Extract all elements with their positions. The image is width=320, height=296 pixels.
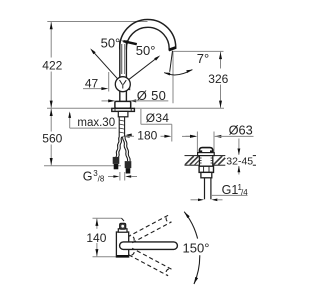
dimension 140 vertical line xyxy=(95,218,98,257)
svg-text:50°: 50° xyxy=(136,43,156,58)
extension line hose connection level xyxy=(44,165,121,167)
svg-text:422: 422 xyxy=(42,58,62,72)
lever ball joint xyxy=(115,77,130,92)
svg-text:560: 560 xyxy=(42,132,62,146)
dimension 180 xyxy=(123,135,172,138)
extension line top of body (plan) xyxy=(93,218,125,221)
swivel arrow left 50 deg xyxy=(121,40,137,44)
hose connector left xyxy=(113,157,120,169)
mounting washer below deck xyxy=(112,108,135,111)
dimension diameter 63 xyxy=(182,132,254,153)
spout plan view xyxy=(120,242,178,250)
dimension 422 vertical line xyxy=(50,22,53,109)
svg-text:Ø 50: Ø 50 xyxy=(137,88,166,103)
leader to waste centre xyxy=(186,135,198,138)
waste flange xyxy=(198,153,215,156)
base escutcheon xyxy=(115,101,131,108)
svg-text:50°: 50° xyxy=(101,36,121,51)
swivel arc 150 deg xyxy=(184,212,200,284)
svg-text:140: 140 xyxy=(86,231,106,245)
mounting nut xyxy=(118,111,128,116)
svg-text:/8: /8 xyxy=(98,175,105,184)
dimension 560 vertical line xyxy=(50,108,53,166)
extension line bottom of body (plan) xyxy=(93,256,126,258)
lever plan view xyxy=(118,229,127,232)
svg-text:max.30: max.30 xyxy=(77,117,115,129)
dimension 326 vertical line xyxy=(219,51,222,108)
waste body through counter xyxy=(199,156,212,166)
svg-text:32-45: 32-45 xyxy=(226,155,253,167)
angle arc 7 deg with arrows xyxy=(164,70,192,76)
stud pointer xyxy=(126,134,132,137)
extension line top of spout xyxy=(47,21,147,23)
lever knob plan view xyxy=(120,223,126,229)
extension line spout outlet xyxy=(173,50,224,52)
label 150 deg xyxy=(184,239,213,256)
leader max.30 xyxy=(68,111,116,128)
supply hose left xyxy=(116,137,122,158)
thread size dimension arrows xyxy=(108,172,137,181)
threaded stud xyxy=(119,117,124,137)
extension line lever front xyxy=(108,72,110,92)
waste plug cap xyxy=(199,148,212,153)
label G 1 1/4 xyxy=(222,183,249,197)
extension stubs for 32-45 xyxy=(253,156,256,166)
svg-text:326: 326 xyxy=(208,72,228,86)
spout outlet mousseur xyxy=(169,47,176,50)
svg-text:G: G xyxy=(83,169,93,183)
label G 3/8 xyxy=(83,169,105,183)
dimension 47 xyxy=(83,87,130,90)
svg-text:Ø63: Ø63 xyxy=(229,122,253,137)
spout arc xyxy=(120,19,176,50)
leader for left 50 deg xyxy=(90,48,118,79)
hose connector right xyxy=(125,161,132,173)
leader G 1 1/4 xyxy=(211,194,248,196)
svg-text:7°: 7° xyxy=(197,51,209,66)
faucet body pipe xyxy=(120,41,127,102)
leader for centre 50 deg xyxy=(129,55,161,79)
svg-text:47: 47 xyxy=(85,76,99,90)
spout swung down dashed xyxy=(129,248,172,275)
stream line tilted 7 deg xyxy=(170,51,173,72)
svg-text:Ø34: Ø34 xyxy=(146,111,170,125)
svg-text:180: 180 xyxy=(137,129,157,143)
svg-text:150°: 150° xyxy=(183,241,210,256)
counter section hatching left xyxy=(185,156,199,166)
waste tailpipe xyxy=(205,178,211,200)
dimension diameter 50 base xyxy=(102,99,169,102)
waste locknut xyxy=(199,166,213,178)
counter section hatching right xyxy=(213,156,225,166)
bracket diameter 34 hole xyxy=(141,109,172,142)
vertical stream reference line xyxy=(172,51,174,103)
deck reference line xyxy=(47,107,224,109)
dimension 32-45 xyxy=(238,139,241,175)
spout swung up dashed xyxy=(129,215,172,243)
supply hose right xyxy=(123,137,130,162)
tail thread dimension arrows xyxy=(191,199,223,202)
body plan view xyxy=(116,232,128,257)
